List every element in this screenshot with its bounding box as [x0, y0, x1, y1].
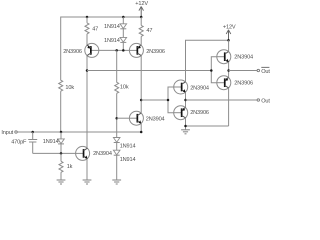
transistor Q5 2N3906	[174, 106, 209, 120]
svg-text:10k: 10k	[120, 85, 129, 91]
wire base rail Q1 to Q2	[99, 49, 130, 51]
svg-text:2N3904: 2N3904	[190, 85, 209, 91]
wire R3 bottom to input line	[60, 91, 62, 132]
svg-text:1N914: 1N914	[43, 139, 59, 145]
resistor R5 1k	[59, 153, 73, 180]
wire left pair base bracket	[168, 87, 174, 113]
capacitor C1 470pF	[11, 132, 37, 153]
svg-text:1N914: 1N914	[120, 157, 136, 163]
node input / C1 branch	[31, 131, 34, 134]
node rail junction at R2	[140, 16, 143, 19]
wire Q7 emitter to node	[228, 71, 230, 78]
terminal lower Out	[257, 98, 270, 104]
power +12V right arrow	[223, 25, 236, 41]
wire Q3 base lead	[117, 117, 130, 119]
wire D2 to base rail	[122, 43, 124, 51]
resistor R4 10k	[115, 82, 129, 93]
terminal Input	[1, 130, 17, 136]
resistor R1 47	[85, 23, 98, 34]
svg-text:2N3906: 2N3906	[146, 49, 165, 55]
node left pair emitters	[184, 99, 187, 102]
svg-text:47: 47	[92, 26, 98, 32]
svg-text:1k: 1k	[67, 164, 73, 170]
wire Q5 emitter to node	[185, 100, 187, 107]
transistor Q6 2N3904	[217, 50, 253, 64]
ground G2	[83, 180, 92, 184]
wire R1 top lead	[86, 17, 88, 23]
wire Q7 collector down to ground run	[228, 88, 230, 126]
svg-text:1N914: 1N914	[104, 38, 120, 44]
node +12V right junction	[227, 39, 230, 42]
svg-text:2N3906: 2N3906	[190, 110, 209, 116]
wire right pair base bracket	[211, 57, 217, 83]
svg-text:2N3904: 2N3904	[234, 54, 253, 60]
wire R2 top lead	[140, 17, 142, 25]
transistor Q1 2N3906	[63, 43, 99, 57]
wire left branch from rail down to R3	[60, 17, 62, 81]
wire driver line to right pair bases	[87, 70, 211, 72]
wire Q6 emitter to node	[228, 62, 230, 71]
wire Q5 collector to ground node	[185, 118, 187, 130]
wire upper output line	[229, 70, 257, 72]
wire Q4 collector riser	[186, 40, 229, 81]
svg-text:1N914: 1N914	[104, 24, 120, 30]
node rail junction at diode chain	[122, 16, 125, 19]
svg-text:2N3906: 2N3906	[63, 49, 82, 55]
svg-text:2N3904: 2N3904	[93, 151, 112, 157]
node collector node to driver B	[140, 99, 143, 102]
wire Q8 emitter to ground	[86, 159, 88, 181]
wire Q2/Q3 collector node vertical	[140, 55, 142, 113]
diode D3 1N914	[113, 138, 135, 150]
wire Q4 emitter to node	[185, 92, 187, 100]
node base rail / diode chain	[122, 49, 125, 52]
node input / Q3 emitter	[140, 131, 143, 134]
svg-text:Input: Input	[1, 130, 13, 136]
svg-text:10k: 10k	[65, 85, 74, 91]
ground G1	[57, 180, 66, 184]
diode D1 1N914	[104, 24, 127, 30]
node right pair emitters	[227, 69, 230, 72]
svg-text:+12V: +12V	[135, 1, 148, 7]
wire Q8 base bus	[33, 152, 76, 154]
wire Q6 collector to +12V	[228, 40, 230, 52]
ground G3	[112, 180, 121, 184]
svg-text:Out: Out	[261, 98, 270, 104]
wire diode chain top lead	[122, 17, 124, 24]
node base rail / R4 branch	[115, 49, 118, 52]
terminal upper Out inverted	[257, 67, 270, 75]
transistor Q8 2N3904	[76, 146, 112, 160]
resistor R3 10k	[59, 80, 75, 91]
diode D2 1N914	[104, 37, 127, 44]
svg-text:2N3904: 2N3904	[146, 117, 165, 123]
diode D5 1N914	[43, 132, 65, 153]
svg-text:1N914: 1N914	[120, 143, 136, 149]
wire D1 to D2	[122, 29, 124, 38]
node input / R3 and D5 branch	[60, 131, 63, 134]
diode D4 1N914	[113, 150, 135, 163]
transistor Q3 2N3904	[129, 111, 164, 125]
node left bracket junction	[167, 99, 170, 102]
node bus / R5	[60, 152, 63, 155]
wire R2 bottom to Q2 emitter	[140, 36, 142, 45]
wire ground run right pair to left pair	[186, 125, 229, 127]
wire driver line to left pair bases	[141, 99, 168, 101]
node rail junction at R1	[86, 16, 89, 19]
svg-text:+12V: +12V	[223, 25, 236, 31]
wire R4 bottom to D3	[116, 93, 118, 137]
wire Q1 collector down across input to Q8 collector	[86, 55, 88, 148]
resistor R2 47	[139, 25, 152, 36]
svg-text:2N3906: 2N3906	[234, 80, 253, 86]
wire lower output line	[186, 99, 257, 101]
node Q3 base junction	[115, 117, 118, 120]
ground G4	[181, 130, 190, 134]
svg-text:47: 47	[146, 28, 152, 34]
transistor Q2 2N3906	[129, 43, 165, 57]
wire R4 branch vertical	[116, 50, 118, 82]
svg-text:470pF: 470pF	[11, 140, 27, 146]
node ground node below Q5	[184, 125, 187, 128]
power +12V left arrow	[135, 1, 148, 17]
node right bracket junction	[210, 69, 213, 72]
transistor Q4 2N3904	[174, 80, 209, 94]
wire top supply rail	[61, 16, 142, 18]
wire D3 to D4	[116, 143, 118, 151]
wire input line	[17, 131, 141, 133]
wire Q3 emitter to input line	[140, 123, 142, 132]
wire R1 bottom to Q1 emitter	[86, 34, 88, 46]
wire D4 to ground	[116, 155, 118, 180]
transistor Q7 2N3906	[217, 76, 253, 90]
svg-text:Out: Out	[261, 69, 270, 75]
node Q1 collector / driver wire	[86, 69, 89, 72]
